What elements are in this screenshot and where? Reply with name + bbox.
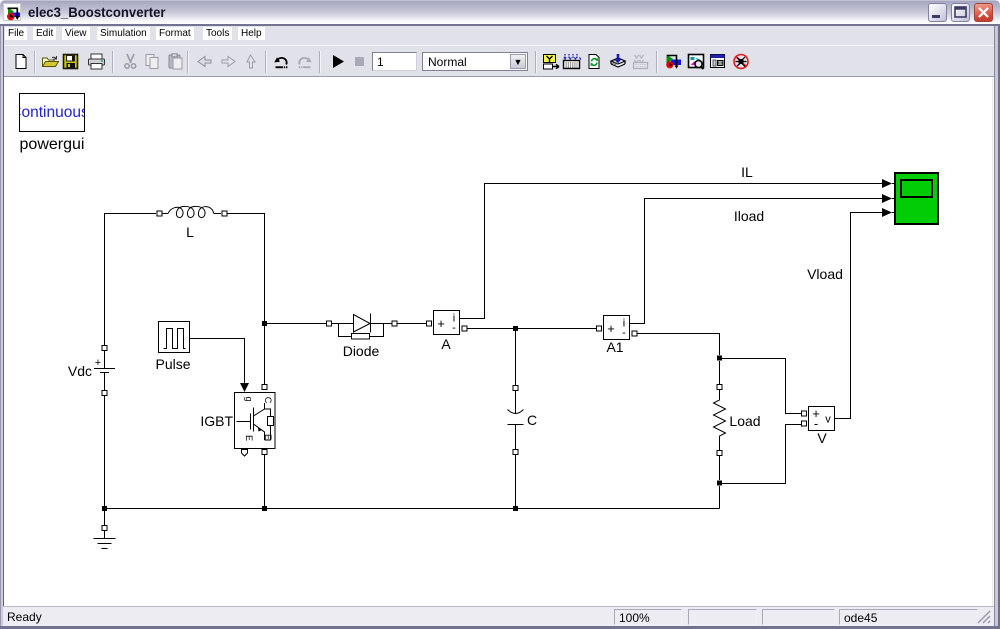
svg-text:-: - [622, 327, 626, 339]
wire: inductor to junction, down to IGBT collector node [227, 214, 265, 322]
wire: A1 i-output up to scope input 2 (Iload) [630, 199, 883, 324]
arrowhead scope input 3 [882, 208, 892, 217]
powergui block [10, 94, 89, 132]
junction node rail capacitor [513, 506, 518, 511]
svg-text:A1: A1 [606, 339, 623, 355]
svg-text:Vload: Vload [807, 266, 843, 282]
svg-text:E: E [244, 435, 254, 441]
wire: A minus-output to junction to A1 [467, 328, 596, 330]
Diode [327, 314, 398, 340]
wire: coil to right port [214, 213, 221, 215]
junction node capacitor top [513, 326, 518, 331]
ground [94, 526, 116, 549]
svg-text:+: + [437, 316, 445, 331]
svg-text:V: V [817, 430, 827, 446]
svg-text:+: + [607, 321, 615, 336]
wire: rail to ground block [104, 511, 106, 525]
IGBT E port [262, 450, 267, 455]
right window border [994, 26, 1000, 626]
svg-text:Load: Load [729, 413, 760, 429]
wire: junction to V plus input [722, 359, 801, 414]
junction node load top [717, 356, 722, 361]
wire: junction to diode anode [267, 323, 326, 325]
wire: diode to A input [397, 323, 426, 325]
status bar [3, 606, 994, 626]
svg-text:C: C [263, 397, 273, 404]
current measurement A [427, 311, 468, 335]
inductor L coil [168, 206, 214, 217]
wire: A1 output right then down to load top junction [637, 334, 720, 356]
wire: load bottom to junction [719, 456, 721, 480]
wire: junction down to IGBT C port [264, 326, 266, 384]
Load resistor [714, 385, 726, 456]
wire: Vdc bottom to ground rail [104, 396, 106, 509]
wire: A i-output up and to scope input 1 (IL) [460, 184, 883, 319]
capacitor C [508, 386, 524, 455]
title bar [0, 0, 1000, 26]
svg-text:-: - [814, 416, 818, 431]
svg-text:Vdc: Vdc [68, 363, 92, 379]
junction node load bottom [717, 481, 722, 486]
IGBT C port [262, 385, 267, 390]
ground rail wire [105, 508, 720, 510]
svg-text:L: L [186, 224, 194, 240]
svg-text:g: g [244, 396, 254, 401]
wire: capacitor bottom to rail [515, 455, 517, 509]
wire: IGBT E to ground rail [264, 455, 266, 509]
Pulse generator block [159, 322, 190, 353]
Vdc DC voltage source [94, 346, 115, 396]
svg-text:IL: IL [741, 164, 753, 180]
junction node rail left (Vdc/ground) [102, 506, 107, 511]
svg-text:-: - [452, 322, 456, 334]
junction node top of IGBT [262, 321, 267, 326]
wire: port to coil [162, 213, 168, 215]
svg-text:C: C [527, 412, 537, 428]
svg-text:Continuous: Continuous [10, 104, 89, 121]
menu bar [3, 26, 994, 45]
wire: Pulse output to IGBT gate with arrow [190, 339, 245, 384]
wire: junction down to ground rail [719, 486, 721, 509]
svg-text:Pulse: Pulse [155, 356, 190, 372]
wire: junction down to load [719, 361, 721, 384]
svg-text:IGBT: IGBT [200, 413, 233, 429]
node: inductor left port [157, 211, 162, 216]
svg-text:powergui: powergui [20, 136, 85, 153]
wire: Vdc top to inductor left [105, 214, 157, 346]
node: inductor right port [222, 211, 227, 216]
svg-text:+: + [95, 357, 101, 369]
toolbar [3, 45, 994, 77]
voltage measurement V [802, 406, 835, 431]
junction node rail IGBT emitter [262, 506, 267, 511]
IGBT block [235, 393, 276, 449]
svg-text:A: A [441, 336, 451, 352]
svg-text:Iload: Iload [734, 208, 764, 224]
svg-text:Diode: Diode [343, 343, 380, 359]
Scope block [895, 173, 938, 224]
arrowhead scope input 2 [882, 194, 892, 203]
current measurement A1 [597, 316, 638, 340]
wire: junction down to capacitor [515, 331, 517, 385]
IGBT m port pentagon [242, 450, 248, 457]
simulink app icon [3, 3, 21, 21]
svg-text:v: v [825, 414, 831, 426]
wire: junction to V minus input [722, 425, 801, 484]
wire: V output up to scope input 3 (Vload) [835, 213, 883, 419]
arrowhead scope input 1 [882, 179, 892, 188]
